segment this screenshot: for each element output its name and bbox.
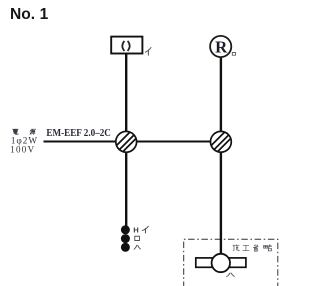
switch イ (with pilot lamp H) (121, 225, 130, 234)
wire: lamp receptacle R to junction box B (220, 57, 222, 142)
switch ロ (121, 234, 130, 243)
label イ (switch) (142, 226, 148, 233)
svg-text:1: 1 (40, 6, 49, 23)
wire: junction box A to junction box B (126, 140, 221, 142)
svg-text:R: R (215, 37, 228, 56)
junction box B (VVF joint box, hatched) (203, 122, 243, 157)
lamp receptacle R ロ (210, 36, 231, 57)
switch ハ (121, 243, 130, 252)
svg-text:100V: 100V (10, 145, 35, 155)
wire: junction box A down to switches (125, 142, 127, 226)
label ハ (fluorescent light) (227, 273, 235, 277)
kanji 源 (30, 129, 36, 134)
ceiling light (angled hook ceiling body) イ (111, 37, 142, 54)
kanji 工 (243, 245, 249, 250)
kanji 施 (233, 245, 239, 251)
junction box A (VVF joint box, hatched) (108, 122, 148, 157)
kanji 略 (264, 245, 272, 251)
wire: junction box B down to fluorescent light ハ (220, 142, 222, 255)
wire: ceiling light to junction box A (125, 53, 127, 141)
svg-text:H: H (133, 225, 138, 234)
kanji 電 (13, 129, 19, 134)
label 施工省略 (construction omitted) (233, 245, 272, 252)
dashed outline 施工省略 (construction omitted) box (184, 239, 278, 286)
svg-text:No.: No. (10, 6, 35, 23)
label ロ (receptacle) (232, 52, 235, 55)
label ハ (switch) (134, 245, 140, 249)
fluorescent light ハ (inside omitted box) (196, 254, 246, 272)
kanji 省 (253, 245, 258, 252)
wire: power source feed (horizontal) (44, 140, 127, 142)
label イ (ceiling light) (145, 48, 151, 56)
svg-text:EM-EEF 2.0–2C: EM-EEF 2.0–2C (46, 127, 111, 139)
power source label 電源 1φ2W 100V (10, 129, 38, 154)
label ロ (switch) (135, 236, 140, 240)
